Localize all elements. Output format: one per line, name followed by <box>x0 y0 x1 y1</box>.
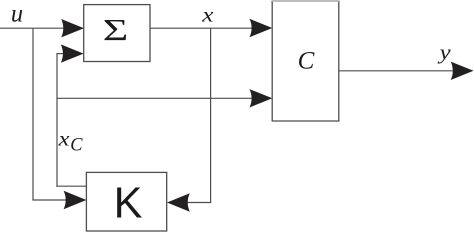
arrowhead into K left <box>64 191 87 209</box>
svg-text:x: x <box>201 5 214 27</box>
arrowhead output y <box>451 62 474 80</box>
wire xC vertical <box>56 54 58 187</box>
wire u input horizontal <box>0 27 64 29</box>
controller block C top edge <box>272 0 339 2</box>
arrowhead into C input 2 <box>249 89 272 107</box>
svg-text:K: K <box>114 179 143 228</box>
wire xC to sigma horizontal <box>56 53 66 55</box>
svg-text:u: u <box>11 0 23 27</box>
wire xC to C horizontal <box>56 97 254 99</box>
svg-text:Σ: Σ <box>103 12 129 47</box>
arrowhead into sigma input 1 <box>61 19 84 37</box>
arrowhead into sigma input 2 <box>61 44 84 62</box>
svg-text:x: x <box>57 129 69 151</box>
arrowhead into K right <box>167 193 190 211</box>
wire x to K horizontal <box>186 202 211 204</box>
wire x output horizontal <box>150 27 254 29</box>
svg-text:C: C <box>298 48 315 75</box>
wire x branch vertical <box>210 28 212 202</box>
summing block Sigma box <box>84 5 150 62</box>
wire xC to K horizontal <box>56 185 87 187</box>
wire u to K horizontal <box>32 199 68 201</box>
gain block K box <box>86 172 166 231</box>
controller block C box <box>272 1 339 121</box>
svg-text:y: y <box>437 40 451 64</box>
wire u branch vertical <box>32 28 34 200</box>
arrowhead into C input 1 <box>249 19 272 37</box>
svg-text:C: C <box>70 136 83 156</box>
wire y output horizontal <box>339 70 459 72</box>
